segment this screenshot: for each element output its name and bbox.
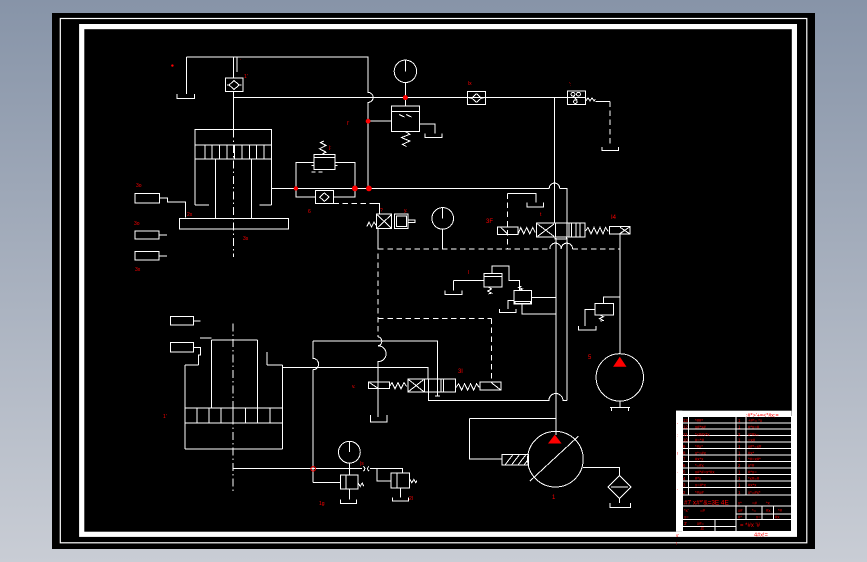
svg-text:x=: x= (684, 514, 689, 519)
valve V3 (reducing) (484, 273, 502, 294)
svg-text:x=: x= (756, 514, 761, 519)
svg-text:I4: I4 (611, 215, 617, 221)
wire: relief valve RV1 loop left (296, 163, 314, 189)
wire: valve V4 left drain to tank T11 (499, 300, 516, 312)
check valve CV1 (225, 78, 242, 92)
wire: DV1 left pilot drain (dashed) and tank T5 (507, 194, 509, 249)
svg-text:x*=#x: x*=#x (695, 450, 707, 455)
wire: limit switch tails lower cylinder (193, 321, 200, 365)
svg-text:3x: 3x (135, 267, 141, 273)
check valve CV2 (468, 91, 486, 104)
centerline CYL2 (232, 324, 234, 493)
svg-text:y.: y. (404, 208, 408, 214)
svg-text:.E: .E (700, 526, 704, 531)
wire: branch from gauge line down to DV1 (553, 98, 555, 224)
wire: vertical x312.9 with S-hop over y367.6 (313, 341, 341, 482)
wire: cylinder 2 port line y367.6 (282, 368, 428, 379)
relief valve V1 (pilot operated) (391, 106, 419, 147)
directional valve DV2 (4F) (368, 379, 501, 396)
svg-text:*#x#: *#x# (695, 490, 704, 495)
svg-text:':: ': (569, 82, 571, 88)
wire: valve V7 drain + tank T9 (392, 488, 408, 501)
wire: gauge G1 stem (404, 83, 406, 106)
wire: gauge G3 stem (348, 463, 350, 475)
wire: top supply line y57 (186, 56, 368, 58)
wire: valve V1 right port to tank T2 (420, 124, 435, 133)
wire: pilot rail y248.8 (dashed) (378, 248, 550, 250)
motor M1 triangle (613, 357, 626, 367)
node A: junction dot cylinder line (294, 186, 298, 190)
wire: gauge manifold line y97.5 (234, 97, 568, 99)
inner thick border (82, 27, 795, 535)
svg-text:|s: |s (360, 461, 364, 467)
title block red text (676, 413, 783, 546)
gauge G1 (394, 60, 416, 82)
gauge G2 (432, 208, 454, 230)
svg-text:3F: 3F (486, 219, 493, 225)
svg-text:4#x!=: 4#x!= (754, 533, 768, 539)
wire: below valve 2F to 4F solenoid and tank (377, 229, 379, 245)
svg-text:#7 x#*'&=3E 4E: #7 x#*'&=3E 4E (684, 500, 729, 507)
wire: motor drain feet (610, 401, 630, 411)
svg-text:#x*x: #x*x (695, 457, 704, 462)
wire: DV1 P-line down to pump (hop over y248.8) (555, 238, 557, 435)
valve V6 (341, 475, 364, 489)
wire: valve V1 left port (368, 120, 391, 122)
svg-text:1': 1' (244, 74, 248, 80)
svg-text:x*#x=: x*#x= (748, 432, 759, 437)
svg-text:#*: #* (738, 514, 742, 519)
svg-text:12: 12 (683, 425, 688, 430)
limit switch boxes (lower) (171, 317, 194, 353)
relief valve RV1 (312, 141, 338, 172)
title block thick top bar (676, 411, 792, 417)
svg-text:= *#x '#: = *#x '# (740, 523, 761, 529)
solenoid DV1-a (497, 227, 518, 234)
pump P1 triangle (548, 435, 562, 444)
REDS (171, 64, 408, 191)
wire: vertical x368 with hop over y97.5 (368, 57, 373, 189)
svg-text:*##*: *##* (695, 418, 703, 423)
wire: gauge G2 stem (442, 229, 444, 249)
svg-text::: : (677, 433, 678, 438)
wire: V5 to tank T6 (579, 309, 597, 330)
solenoid valve 2F (367, 214, 415, 228)
table column lines (689, 416, 746, 531)
svg-text:v.: v. (352, 384, 356, 390)
svg-text:*x': *x' (684, 508, 689, 513)
svg-text:=#: =# (752, 501, 758, 506)
svg-text:*=: *= (752, 508, 757, 513)
svg-text:x#*#=x*#x: x#*#=x*#x (695, 470, 715, 475)
cylinder CYL2 (lower cylinder) (185, 338, 282, 449)
gauge G3 (339, 441, 361, 463)
node D: junction dot valve V1 (366, 119, 371, 124)
tank T1 (185, 57, 187, 94)
tank T2 (425, 134, 442, 138)
wire: cylinder 2 bottom line y468.7 with orifice (233, 469, 403, 473)
svg-text:x#*=x#: x#*=x# (748, 444, 762, 449)
wire: main pressure line y188.4 with hop over x554.4 (272, 183, 568, 223)
svg-text:#*x=#: #*x=# (748, 425, 760, 430)
svg-text:!: ! (676, 541, 677, 546)
svg-text:=x#: =x# (748, 437, 756, 442)
motor M1 (596, 354, 643, 401)
wire: return line y400.5 with hop over pump riser (429, 392, 567, 400)
node E: junction dot gauge G1 (403, 95, 408, 100)
svg-text:1g: 1g (319, 501, 325, 507)
svg-text:1': 1' (163, 414, 167, 420)
table row lines (682, 423, 791, 495)
centerline CYL1 (232, 129, 234, 257)
solenoid DV1-b (610, 227, 631, 234)
svg-text:10: 10 (683, 437, 688, 442)
svg-text:#*x: #*x (695, 476, 702, 481)
svg-text:*x##x*x: *x##x*x (695, 432, 710, 437)
wire: pressure switch outlet (dashed) to tank T4 (595, 101, 610, 103)
svg-text:=#: =# (700, 508, 706, 513)
solenoid DV2-a (368, 382, 389, 388)
node B: junction dot check branch (352, 186, 358, 192)
node F: small dot top left (171, 64, 173, 66)
svg-text:j:: j: (328, 145, 332, 151)
svg-text:*#x*: *#x* (695, 444, 703, 449)
svg-text:13: 13 (683, 418, 688, 423)
wire: pilot line to valve 2F (dashed) (333, 202, 370, 204)
wire: pilot dashed y318.4 to 4F right solenoid (378, 317, 491, 319)
svg-text:#x*: #x* (748, 450, 755, 455)
wire: branch to valve V5 (604, 297, 620, 304)
svg-text:*#: *# (778, 508, 783, 513)
svg-text:3s: 3s (243, 236, 249, 242)
svg-text:?: ? (380, 208, 383, 214)
svg-text:x*#: x*# (748, 463, 755, 468)
svg-text:x#: x# (738, 508, 743, 513)
svg-text:+#*= *x: +#*= *x (748, 418, 763, 423)
svg-text:6: 6 (308, 209, 311, 215)
svg-text:!: ! (677, 451, 678, 456)
tank T7 under 4F solenoid (370, 415, 387, 422)
svg-text:*=#x: *=#x (695, 463, 705, 468)
wire: valve V3 top loop into valve V4 (492, 266, 520, 291)
svg-text:I: I (468, 270, 469, 276)
wire: pump suction loop (469, 419, 556, 460)
wire: valve V4 bottom port (522, 304, 556, 314)
wire: valve V4 right port to pump riser (531, 296, 556, 298)
wire: branch into valve V6 left (377, 469, 391, 481)
svg-text:lx: lx (468, 81, 472, 87)
node C: junction dot riser x368 (366, 186, 372, 192)
pressure switch PS1 (567, 91, 595, 105)
wire: valve V6 drain + tank T8 (341, 489, 357, 503)
wire: stubs into check valve CV1 (234, 57, 238, 78)
svg-text:s': s' (676, 533, 679, 538)
svg-text:*x#=#: *x#=# (748, 476, 760, 481)
node G: ring junction at orifice line (311, 467, 316, 472)
valve V7 (391, 473, 417, 488)
svg-text:2x: 2x (187, 212, 193, 218)
title block table frame (682, 416, 791, 531)
cylinder CYL1 (upper press cylinder) (180, 129, 289, 228)
wire: 4F A-port line y341.2 (313, 341, 438, 379)
svg-text:#=*#: #=*# (695, 437, 705, 442)
wire: limit switch tails upper cylinder (159, 198, 186, 256)
svg-text:x#*x#: x#*x# (695, 425, 706, 430)
orifice OR1 (363, 466, 369, 471)
svg-text:.: . (677, 469, 678, 474)
check valve CV3 (bypass) (316, 191, 334, 204)
wire: relief valve RV1 loop right (335, 163, 355, 189)
svg-text:3o: 3o (134, 221, 140, 227)
svg-text:3l: 3l (458, 369, 463, 375)
svg-text:3': 3' (684, 521, 687, 526)
svg-text:*#=x#*: *#=x#* (748, 457, 761, 462)
svg-text:3o: 3o (136, 183, 142, 189)
title block thick left bar (676, 411, 682, 532)
wire: motor supply from DV1 right solenoid (619, 234, 621, 355)
svg-text:x*: x* (738, 501, 742, 506)
wire: CV1 outlet down to cylinder (233, 92, 235, 130)
wire: valve V3 left port to tank T3 (445, 280, 484, 294)
svg-text:x=#*x: x=#*x (695, 483, 707, 488)
svg-text:2l: 2l (409, 496, 413, 502)
pump P1 (502, 431, 583, 487)
filter F1 (608, 475, 631, 498)
valve V5 (595, 304, 614, 322)
solenoid DV2-b (480, 382, 501, 390)
valve V4 (514, 286, 531, 304)
wire: pump outlet to filter and tank T10 (583, 467, 630, 507)
directional valve DV1 (4/3 solenoid) (497, 223, 630, 239)
red component labels (134, 56, 617, 507)
svg-text:#x*x: #x*x (748, 483, 757, 488)
svg-text:x*=#x*: x*=#x* (748, 490, 761, 495)
svg-text:I': I' (347, 121, 349, 127)
svg-text:11: 11 (683, 432, 688, 437)
wire: DV1 T-line down (hop over y248.8) (566, 238, 568, 401)
limit switch boxes (upper) (135, 194, 160, 260)
svg-text:.: . (240, 56, 241, 62)
svg-text:#*x=: #*x= (748, 470, 757, 475)
